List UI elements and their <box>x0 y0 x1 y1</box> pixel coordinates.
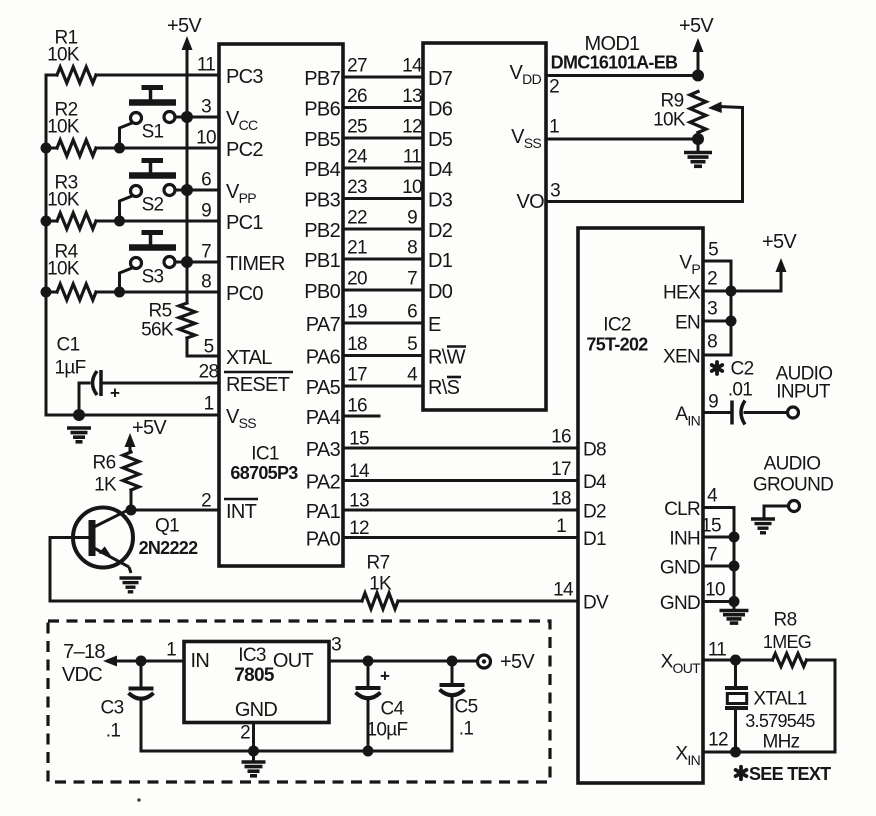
terminal +5V output <box>478 655 491 668</box>
svg-text:1µF: 1µF <box>54 358 85 379</box>
svg-text:PA5: PA5 <box>306 377 341 399</box>
overline S of RS <box>447 376 461 379</box>
svg-text:INPUT: INPUT <box>776 382 831 403</box>
svg-text:PC1: PC1 <box>226 212 263 234</box>
svg-text:CLR: CLR <box>664 499 700 520</box>
display module MOD1 box <box>423 43 546 410</box>
+5V arrow at MOD1 <box>693 38 704 75</box>
svg-text:IC2: IC2 <box>603 315 631 336</box>
svg-text:VSS: VSS <box>226 406 256 431</box>
svg-text:10K: 10K <box>47 190 80 211</box>
wire PB0 to MOD1 D0 <box>343 289 423 292</box>
svg-text:10K: 10K <box>47 117 80 138</box>
svg-text:2: 2 <box>201 491 211 512</box>
svg-text:GROUND: GROUND <box>753 475 833 496</box>
junction S3 leg <box>114 287 125 298</box>
svg-text:10: 10 <box>402 177 422 198</box>
capacitor C2 <box>732 401 745 425</box>
svg-text:SEE TEXT: SEE TEXT <box>749 764 831 784</box>
ground audio <box>751 519 775 533</box>
svg-text:16: 16 <box>551 427 571 448</box>
svg-text:D3: D3 <box>428 190 453 212</box>
capacitor C5 <box>440 685 465 695</box>
svg-text:+5V: +5V <box>500 651 535 673</box>
svg-text:1K: 1K <box>369 574 392 595</box>
junction +5V rail VPP <box>181 184 193 196</box>
svg-text:20: 20 <box>347 269 367 290</box>
svg-text:22: 22 <box>347 208 367 229</box>
junction GND7 bus <box>729 561 740 572</box>
wire PA2 to IC2 D4 <box>343 479 578 482</box>
svg-text:R9: R9 <box>661 91 684 112</box>
junction left rail PC2 <box>41 143 52 154</box>
regulator IC3 7805 box <box>184 642 329 723</box>
svg-text:14: 14 <box>402 56 423 77</box>
wire S1 left leg <box>120 123 133 148</box>
wire PA3 to IC2 D8 <box>343 447 578 450</box>
svg-text:9: 9 <box>407 208 417 229</box>
svg-text:D6: D6 <box>428 99 453 121</box>
wire AIN to C2 <box>703 411 732 414</box>
wire +5V rail <box>186 46 189 303</box>
svg-text:D0: D0 <box>428 281 453 303</box>
svg-text:12: 12 <box>708 730 728 751</box>
potentiometer R9 wiper arrow <box>708 102 743 114</box>
wire left rail <box>45 75 48 415</box>
svg-text:VSS: VSS <box>511 126 541 151</box>
capacitor C4 <box>356 667 391 699</box>
crystal XTAL1 <box>725 660 748 752</box>
wire PA0 to IC2 D1 <box>343 536 578 539</box>
resistor R3 <box>57 213 96 229</box>
switch S2 <box>129 161 176 216</box>
switch S1 <box>129 88 176 143</box>
wire VSS MOD1 <box>546 138 698 141</box>
svg-text:10: 10 <box>196 128 216 149</box>
transistor Q1 <box>73 508 133 574</box>
svg-text:5: 5 <box>204 337 214 358</box>
svg-text:PB0: PB0 <box>304 281 340 303</box>
svg-text:PB6: PB6 <box>304 99 340 121</box>
junction HEX bus <box>726 286 737 297</box>
svg-text:27: 27 <box>347 56 367 77</box>
wire C3 bottom lead <box>140 699 143 751</box>
wire XOUT <box>703 659 773 662</box>
wire GND10 stub <box>703 600 734 603</box>
wire INH stub <box>703 536 734 539</box>
junction S2 leg <box>114 216 125 227</box>
svg-text:2: 2 <box>549 77 559 98</box>
svg-text:15: 15 <box>701 516 721 537</box>
svg-text:R5: R5 <box>149 301 172 322</box>
svg-text:PA6: PA6 <box>306 347 341 369</box>
svg-text:D4: D4 <box>428 159 453 181</box>
wire R2 to IC1 <box>96 147 219 150</box>
svg-text:75T-202: 75T-202 <box>586 335 648 355</box>
chip IC1 68705P3 box <box>219 44 343 566</box>
junction GND lead rail <box>248 746 259 757</box>
junction C3 <box>136 656 147 667</box>
svg-text:S2: S2 <box>142 195 164 216</box>
wire R3 row <box>46 220 57 223</box>
svg-text:VDC: VDC <box>62 664 102 686</box>
junction C4 rail <box>363 746 374 757</box>
svg-text:3: 3 <box>331 635 341 656</box>
svg-text:2: 2 <box>707 269 717 290</box>
junction EN bus <box>726 316 737 327</box>
potentiometer R9 body <box>690 92 706 133</box>
wire HEX to +5V <box>731 264 781 291</box>
svg-text:E: E <box>428 314 441 336</box>
wire S2 to VPP pin <box>175 189 219 192</box>
ground IC2 bus <box>720 603 749 624</box>
svg-text:1MEG: 1MEG <box>763 632 811 652</box>
wire C4 bottom lead <box>367 699 370 751</box>
svg-text:+: + <box>380 667 390 686</box>
svg-text:DV: DV <box>583 593 609 614</box>
wire S3 left leg <box>120 268 133 292</box>
svg-text:3: 3 <box>201 97 211 118</box>
ground PSU <box>242 754 266 776</box>
svg-text:PA0: PA0 <box>306 529 341 551</box>
svg-text:.1: .1 <box>459 719 474 740</box>
svg-text:D1: D1 <box>583 529 606 550</box>
svg-text:14: 14 <box>349 461 370 482</box>
wire R7 to DV <box>398 600 578 603</box>
svg-text:R7: R7 <box>367 553 390 574</box>
wire R1 to IC1 <box>96 74 219 77</box>
svg-text:12: 12 <box>402 117 422 138</box>
svg-text:Q1: Q1 <box>155 516 179 537</box>
wire R9 bottom to VSS <box>697 133 700 140</box>
svg-text:5: 5 <box>708 240 718 261</box>
wire PSU ground rail <box>141 750 452 753</box>
svg-text:10µF: 10µF <box>367 720 408 741</box>
svg-text:OUT: OUT <box>273 650 314 672</box>
svg-text:7805: 7805 <box>234 665 275 686</box>
wire HEX stub <box>703 290 731 293</box>
svg-text:17: 17 <box>347 365 367 386</box>
svg-text:1: 1 <box>204 394 214 415</box>
svg-text:PA4: PA4 <box>306 407 341 429</box>
svg-text:14: 14 <box>553 580 574 601</box>
wire EN stub <box>703 320 731 323</box>
svg-text:56K: 56K <box>141 320 174 341</box>
chip IC2 75T-202 box <box>578 228 703 783</box>
svg-text:+: + <box>110 384 120 403</box>
svg-text:+5V: +5V <box>167 15 202 37</box>
wire R8 to right edge <box>703 660 835 752</box>
svg-text:PA2: PA2 <box>306 472 341 494</box>
resistor R7 <box>362 593 398 609</box>
svg-text:11: 11 <box>197 55 215 76</box>
svg-text:25: 25 <box>347 117 367 138</box>
wire C3 lead <box>140 661 143 689</box>
resistor R6 <box>123 452 139 490</box>
svg-text:68705P3: 68705P3 <box>230 463 298 483</box>
svg-text:18: 18 <box>551 489 571 510</box>
svg-text:C3: C3 <box>101 698 124 719</box>
svg-text:11: 11 <box>403 147 421 168</box>
wire PB4 to MOD1 D4 <box>343 167 423 170</box>
resistor R1 <box>57 67 96 83</box>
svg-text:R6: R6 <box>93 453 116 474</box>
wire R1 row <box>46 74 57 77</box>
power supply dashed box <box>48 621 550 782</box>
wire PA5 to MOD1 RS <box>343 385 423 388</box>
junction left rail PC0 <box>41 287 52 298</box>
svg-text:GND: GND <box>660 558 700 579</box>
svg-text:R\W: R\W <box>428 347 466 369</box>
svg-text:D2: D2 <box>583 502 606 523</box>
svg-text:INH: INH <box>669 529 700 550</box>
wire PB2 to MOD1 D2 <box>343 228 423 231</box>
svg-text:PB4: PB4 <box>304 159 340 181</box>
wire GND7 stub <box>703 565 734 568</box>
junction +5V rail VCC <box>181 111 193 123</box>
svg-text:1: 1 <box>166 640 176 661</box>
junction R6 collector INT <box>126 505 137 516</box>
junction left rail PC1 <box>41 216 52 227</box>
junction INH bus <box>729 532 740 543</box>
wire INT <box>131 509 219 512</box>
label see text <box>736 767 747 779</box>
terminal audio input <box>788 407 799 418</box>
svg-text:16: 16 <box>347 396 367 417</box>
svg-text:AIN: AIN <box>675 404 700 429</box>
svg-text:VPP: VPP <box>226 181 256 206</box>
svg-text:R8: R8 <box>774 610 797 631</box>
junction R9 VSS <box>692 133 704 145</box>
svg-text:R\S: R\S <box>428 377 460 399</box>
svg-text:EN: EN <box>675 313 700 334</box>
junction +5V rail TIMER <box>181 256 193 268</box>
svg-text:2: 2 <box>240 723 250 744</box>
svg-text:21: 21 <box>347 238 367 259</box>
wire PA6 to MOD1 RW <box>343 354 423 357</box>
wire C1 left lead <box>79 383 89 415</box>
svg-text:XTAL: XTAL <box>226 347 272 369</box>
svg-text:S1: S1 <box>142 122 164 143</box>
svg-text:D8: D8 <box>583 440 606 461</box>
switch S3 <box>129 233 176 288</box>
svg-text:10K: 10K <box>653 110 686 131</box>
svg-text:PA1: PA1 <box>306 501 341 523</box>
wire R6 to INT junction <box>130 490 133 510</box>
junction C4 top <box>363 656 374 667</box>
svg-text:D5: D5 <box>428 129 453 151</box>
svg-text:5: 5 <box>407 334 417 355</box>
svg-text:4: 4 <box>407 365 418 386</box>
svg-text:D7: D7 <box>428 68 453 90</box>
ground below Q1 <box>120 578 142 592</box>
svg-text:C4: C4 <box>381 699 405 720</box>
wire audio ground <box>764 506 788 517</box>
svg-text:PB7: PB7 <box>304 68 340 90</box>
overline RESET <box>224 371 293 374</box>
wire PB6 to MOD1 D6 <box>343 106 423 109</box>
wire S1 to VCC pin <box>175 116 219 119</box>
svg-text:D1: D1 <box>428 250 453 272</box>
svg-text:VCC: VCC <box>226 108 258 133</box>
wire R3 to IC1 <box>96 220 219 223</box>
resistor R4 <box>57 284 96 300</box>
svg-text:13: 13 <box>349 491 369 512</box>
wire PB1 to MOD1 D1 <box>343 258 423 261</box>
svg-text:2N2222: 2N2222 <box>139 538 199 558</box>
svg-text:VO: VO <box>517 191 545 213</box>
svg-text:+5V: +5V <box>762 231 797 253</box>
svg-text:3.579545: 3.579545 <box>745 711 815 731</box>
svg-text:10K: 10K <box>47 45 80 66</box>
svg-text:PC3: PC3 <box>226 66 263 88</box>
svg-text:PB1: PB1 <box>304 250 340 272</box>
wire VSS row <box>46 414 219 417</box>
wire S2 left leg <box>120 196 133 221</box>
overline W of RW <box>447 345 466 348</box>
svg-text:IN: IN <box>191 650 210 672</box>
wire C5 lead <box>451 661 454 685</box>
svg-text:+5V: +5V <box>132 417 167 439</box>
wire CLR to bus <box>703 508 734 602</box>
svg-text:8: 8 <box>407 238 417 259</box>
svg-text:3: 3 <box>707 299 717 320</box>
wire Q1 base <box>50 538 362 602</box>
svg-text:XOUT: XOUT <box>661 652 702 677</box>
wire R2 row <box>46 147 57 150</box>
svg-text:19: 19 <box>347 302 367 323</box>
svg-text:+5V: +5V <box>679 15 714 37</box>
junction XOUT <box>730 655 741 666</box>
wire VP to bus <box>703 261 731 355</box>
svg-text:DMC16101A-EB: DMC16101A-EB <box>551 53 678 73</box>
wire VDD to +5V <box>546 74 698 77</box>
svg-text:S3: S3 <box>142 267 164 288</box>
svg-text:VDD: VDD <box>510 62 542 87</box>
svg-text:AUDIO: AUDIO <box>764 454 821 475</box>
svg-text:24: 24 <box>347 147 368 168</box>
junction GND10 bus <box>729 596 740 607</box>
svg-text:PC2: PC2 <box>226 139 263 161</box>
svg-text:.01: .01 <box>728 380 752 401</box>
input arrow <box>103 656 184 667</box>
svg-text:18: 18 <box>347 334 367 355</box>
svg-text:PB2: PB2 <box>304 220 340 242</box>
svg-text:PA3: PA3 <box>306 439 341 461</box>
svg-text:3: 3 <box>550 181 560 202</box>
junction C5 top <box>447 656 458 667</box>
svg-text:7: 7 <box>201 242 211 263</box>
svg-text:VP: VP <box>679 253 700 278</box>
svg-text:XIN: XIN <box>675 744 700 769</box>
svg-text:28: 28 <box>199 362 219 383</box>
svg-text:7: 7 <box>407 269 417 290</box>
wire OUT to +5V <box>329 660 478 663</box>
+5V arrow at R6 <box>125 433 136 452</box>
svg-text:RESET: RESET <box>226 374 290 396</box>
wire R4 to IC1 <box>96 291 219 294</box>
wire PB7 to MOD1 D7 <box>343 76 423 79</box>
svg-text:1: 1 <box>556 516 566 537</box>
svg-text:1K: 1K <box>94 475 117 496</box>
+5V arrow top-left <box>182 36 193 50</box>
junction S1 leg <box>114 143 125 154</box>
svg-text:13: 13 <box>402 86 422 107</box>
junction C1 VSS <box>73 409 85 421</box>
svg-text:HEX: HEX <box>663 283 701 304</box>
terminal audio ground <box>789 501 800 512</box>
svg-text:8: 8 <box>201 272 211 293</box>
ground below C1 <box>67 428 91 442</box>
svg-text:9: 9 <box>708 392 718 413</box>
svg-text:PB5: PB5 <box>304 129 340 151</box>
+5V arrow at IC2 <box>776 258 787 272</box>
svg-text:10: 10 <box>705 580 725 601</box>
svg-text:MHz: MHz <box>763 732 800 753</box>
svg-text:C2: C2 <box>731 359 754 380</box>
svg-text:.1: .1 <box>106 721 121 742</box>
wire PA7 to MOD1 E <box>343 322 423 325</box>
svg-text:GND: GND <box>235 699 278 721</box>
svg-text:9: 9 <box>201 201 211 222</box>
resistor R5 <box>179 303 195 338</box>
overline INT <box>224 498 258 501</box>
svg-text:6: 6 <box>201 170 211 191</box>
wire PA4 stub <box>343 415 379 418</box>
svg-text:7–18: 7–18 <box>63 641 105 663</box>
wire PA1 to IC2 D2 <box>343 509 578 512</box>
capacitor C3 <box>129 689 154 699</box>
svg-text:8: 8 <box>707 332 717 353</box>
svg-text:INT: INT <box>226 501 257 523</box>
svg-text:PC0: PC0 <box>226 283 263 305</box>
wire IC3 GND lead <box>252 723 255 752</box>
svg-text:XTAL1: XTAL1 <box>753 689 806 710</box>
wire C2 to audio input <box>745 411 787 414</box>
svg-text:PA7: PA7 <box>306 314 341 336</box>
svg-text:C1: C1 <box>57 335 80 356</box>
svg-text:GND: GND <box>660 593 700 614</box>
svg-text:7: 7 <box>707 545 717 566</box>
svg-text:D2: D2 <box>428 220 453 242</box>
svg-text:26: 26 <box>347 86 367 107</box>
wire S3 to TIMER pin <box>175 261 219 264</box>
junction VDD +5V <box>692 70 704 82</box>
svg-text:11: 11 <box>708 640 726 661</box>
svg-text:12: 12 <box>349 518 369 539</box>
wire R5 to XTAL pin 5 <box>187 338 219 356</box>
svg-text:XEN: XEN <box>663 347 700 368</box>
wire C1 to RESET pin <box>101 382 219 385</box>
wire R9 wiper to VO <box>546 108 743 202</box>
svg-text:C5: C5 <box>455 697 478 718</box>
svg-text:1: 1 <box>549 117 559 138</box>
wire C4 lead <box>367 661 370 688</box>
resistor R2 <box>57 140 96 156</box>
svg-text:4: 4 <box>707 486 718 507</box>
resistor R8 <box>773 654 807 667</box>
svg-text:PB3: PB3 <box>304 190 340 212</box>
svg-text:6: 6 <box>407 302 417 323</box>
wire C5 bottom lead <box>451 696 454 751</box>
wire R4 row <box>46 291 57 294</box>
svg-text:IC3: IC3 <box>238 645 266 666</box>
wire PB3 to MOD1 D3 <box>343 197 423 200</box>
label C2 star <box>712 362 722 374</box>
svg-text:15: 15 <box>349 429 369 450</box>
svg-text:D4: D4 <box>583 472 607 493</box>
svg-text:17: 17 <box>551 459 571 480</box>
